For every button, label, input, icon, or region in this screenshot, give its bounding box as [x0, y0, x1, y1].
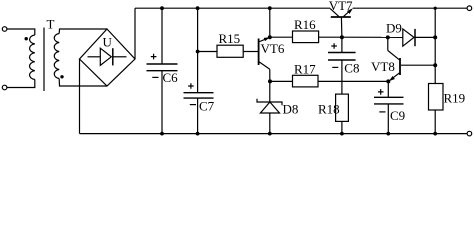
zener diode D8 bar with wings — [257, 99, 282, 105]
transformer core — [43, 28, 45, 92]
capacitor C9 wire from emitter node — [387, 81, 389, 97]
svg-text:R17: R17 — [294, 62, 316, 77]
svg-text:R16: R16 — [294, 17, 316, 32]
capacitor C6 wire from rail — [161, 8, 163, 64]
wire R19 to bottom rail — [434, 110, 436, 134]
node dot bottom rail R19 — [433, 132, 437, 136]
capacitor C8 top plate — [328, 52, 356, 54]
bridge inner diode cathode bar — [112, 48, 114, 65]
node dot bottom rail R18 — [340, 132, 344, 136]
wire D8 to bottom rail — [269, 113, 271, 134]
node dot D9 anode / VT8 collector — [386, 35, 390, 39]
capacitor C6 plus sign — [151, 54, 157, 60]
capacitor C7 wire from rail — [197, 8, 199, 93]
node dot bottom rail D8 — [268, 132, 272, 136]
diode D9 cathode bar — [414, 29, 416, 46]
capacitor C9 top plate — [374, 96, 404, 98]
wire secondary top to bridge AC+ — [59, 29, 107, 34]
node dot VT7 base node — [340, 35, 344, 39]
transistor VT6 — [259, 37, 270, 69]
wire bridge DC+ to top rail — [134, 8, 136, 59]
svg-text:VT7: VT7 — [329, 0, 353, 13]
capacitor C6 wire to bottom rail — [161, 71, 163, 134]
transformer T primary winding — [30, 35, 35, 80]
wire primary top lead — [7, 29, 35, 35]
capacitor C9 minus sign — [379, 111, 385, 113]
capacitor C6 minus sign — [152, 76, 158, 78]
wire VT6 collector down to D8 — [269, 69, 271, 102]
wire C8 down through to R18 — [341, 60, 343, 94]
wire primary bottom lead — [7, 80, 35, 88]
capacitor C8 wire from VT7 base node — [341, 37, 343, 52]
wire R16 to VT7 base node — [319, 36, 342, 38]
resistor R16 — [293, 31, 319, 43]
wire R15 to VT6 base — [243, 51, 258, 53]
capacitor C8 bottom plate — [328, 59, 356, 61]
capacitor C7 top plate — [184, 92, 214, 94]
bridge inner diode cathode wire — [113, 56, 127, 58]
node dot VT8 emitter junction — [386, 79, 390, 83]
svg-text:C8: C8 — [344, 61, 359, 76]
node dot bottom rail C6 — [160, 132, 164, 136]
bridge rectifier U diamond — [80, 29, 136, 86]
terminal output bottom — [467, 131, 472, 136]
node dot R15 tap on C7 line — [196, 50, 200, 54]
node dot output line top — [434, 7, 437, 10]
node dot VT6 emitter junction — [268, 35, 272, 39]
capacitor C7 bottom plate — [184, 97, 214, 99]
capacitor C7 wire to bottom rail — [197, 98, 199, 134]
svg-text:R19: R19 — [444, 91, 466, 106]
node dot top rail VT6 — [268, 6, 272, 10]
wire top rail right segment — [353, 7, 467, 9]
capacitor C7 minus sign — [190, 104, 196, 106]
node dot top rail C6 — [160, 6, 164, 10]
capacitor C8 minus sign — [332, 66, 338, 68]
node dot top rail C7 — [196, 6, 200, 10]
resistor R15 — [217, 45, 243, 57]
capacitor C9 bottom plate — [374, 103, 404, 105]
capacitor C8 plus sign — [331, 43, 337, 49]
zener diode D8 triangle — [260, 102, 279, 113]
wire VT8 collector up to D9 anode node — [387, 37, 389, 50]
capacitor C6 top plate — [147, 63, 178, 65]
terminal input bottom — [2, 85, 7, 90]
svg-text:D8: D8 — [283, 102, 299, 117]
node dot bottom rail C9 — [386, 132, 390, 136]
node dot R17 tap — [268, 79, 272, 83]
resistor R19 — [429, 84, 444, 111]
wire output line rail to R19 — [434, 8, 436, 83]
node dot VT8 base tap — [433, 63, 437, 67]
transformer primary polarity dot — [25, 37, 28, 40]
terminal output top — [467, 6, 472, 11]
svg-text:R15: R15 — [219, 31, 241, 46]
bridge inner diode anode wire — [88, 56, 101, 58]
transistor VT8 — [388, 51, 435, 82]
svg-text:U: U — [103, 35, 113, 50]
transformer secondary polarity dot — [60, 75, 63, 78]
wire D9 to output node — [415, 36, 435, 38]
node dot bottom rail C7 — [196, 132, 200, 136]
diode D9 triangle — [403, 29, 414, 46]
wire VT7 base down — [340, 17, 343, 37]
svg-text:VT8: VT8 — [371, 59, 395, 74]
terminal input top — [2, 27, 7, 32]
wire VT7 base node to D9 — [342, 36, 403, 38]
wire C7 node to R15 — [198, 51, 217, 53]
wire top rail left segment — [135, 7, 330, 9]
svg-text:C7: C7 — [199, 99, 215, 114]
transformer secondary winding — [54, 34, 59, 79]
bridge inner diode triangle — [100, 48, 111, 65]
svg-text:C6: C6 — [163, 70, 179, 85]
wire secondary bottom to bridge AC- — [59, 79, 107, 87]
resistor R17 — [293, 75, 319, 87]
resistor R18 — [336, 94, 349, 121]
wire bridge DC- down to bottom rail — [79, 59, 81, 134]
capacitor C9 plus sign — [378, 89, 384, 95]
svg-text:R18: R18 — [318, 102, 340, 117]
node dot D9 cathode — [433, 35, 437, 39]
wire VT6 node to R16 — [270, 36, 293, 38]
svg-text:D9: D9 — [386, 21, 402, 36]
svg-text:VT6: VT6 — [261, 41, 285, 56]
transistor VT7 — [330, 8, 353, 17]
wire rail to VT6 emitter node — [269, 8, 271, 37]
wire bottom rail — [80, 133, 468, 135]
svg-text:C9: C9 — [390, 108, 405, 123]
capacitor C7 plus sign — [188, 83, 194, 89]
capacitor C6 bottom plate — [147, 70, 178, 72]
wire R17 tap to R17 — [270, 80, 293, 82]
wire R17 to VT8 emitter — [318, 80, 388, 82]
svg-text:T: T — [47, 17, 55, 32]
wire C9 to bottom rail — [387, 104, 389, 134]
wire R18 to bottom rail — [341, 121, 343, 133]
